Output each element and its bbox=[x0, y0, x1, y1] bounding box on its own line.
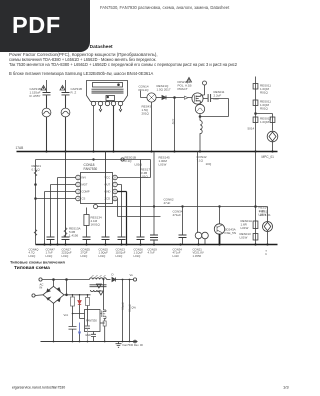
svg-text:COMP: COMP bbox=[82, 190, 90, 194]
warning triangle near C216 bbox=[41, 86, 46, 91]
svg-text:10Q: 10Q bbox=[206, 162, 212, 166]
svg-text:L01Q: L01Q bbox=[46, 254, 54, 258]
wire U1 pin3 bbox=[45, 192, 76, 245]
svg-text:PRACT: PRACT bbox=[178, 87, 188, 91]
svg-text:1.5Q 2017: 1.5Q 2017 bbox=[157, 88, 171, 92]
boost diode D3 bbox=[112, 278, 134, 282]
diode pair D5 bbox=[195, 152, 208, 245]
fuse F2 bbox=[61, 108, 70, 151]
label R17 bbox=[141, 168, 151, 179]
svg-text:1.4556: 1.4556 bbox=[193, 254, 202, 258]
label Q1 bbox=[178, 80, 192, 91]
winding sense arrow 2 bbox=[99, 291, 104, 295]
resistor R011a bbox=[253, 84, 258, 90]
stub arrow T1 pin5 bbox=[119, 106, 122, 112]
varistor RV1 bbox=[267, 131, 278, 151]
transformer T1 pin 4 bbox=[111, 101, 115, 105]
capacitor C316 bbox=[62, 80, 70, 108]
wire U2 out to gate bbox=[99, 313, 101, 315]
svg-text:Q%: Q% bbox=[132, 306, 137, 310]
output terminal Vo bbox=[133, 278, 136, 281]
wire bridge bottom to ground bbox=[53, 303, 55, 341]
svg-text:CS: CS bbox=[82, 197, 86, 201]
svg-text:7: 7 bbox=[114, 183, 116, 187]
svg-text:4.7uF: 4.7uF bbox=[148, 251, 155, 255]
svg-text:R. Z: R. Z bbox=[71, 91, 77, 95]
protection circle Q2 bbox=[195, 104, 204, 120]
label D3 bbox=[112, 273, 114, 277]
PDF logo bbox=[12, 12, 61, 39]
capacitor C13 bbox=[137, 160, 145, 245]
svg-text:L01Q: L01Q bbox=[62, 254, 70, 258]
svg-text:471uF: 471uF bbox=[173, 213, 182, 217]
wire U2 inv pin bbox=[80, 318, 85, 320]
wire zener to ground bbox=[79, 335, 81, 342]
wire bridge top to line bbox=[53, 279, 55, 287]
resistor R01A bbox=[253, 152, 258, 245]
terminal at ground end bbox=[134, 340, 137, 343]
vcc feed resistor R2 bbox=[71, 295, 75, 314]
paragraph line 4 bbox=[9, 71, 153, 76]
label R011a bbox=[260, 84, 271, 95]
label 17AB bbox=[16, 146, 24, 150]
caption: typical circuits bbox=[10, 260, 65, 265]
svg-text:5: 5 bbox=[114, 197, 116, 201]
label C11 bbox=[214, 90, 225, 101]
svg-text:1.4156: 1.4156 bbox=[69, 234, 79, 238]
mark on feed wire bbox=[34, 230, 37, 236]
label C216 bbox=[30, 87, 42, 98]
junction dots on bottom rail bbox=[43, 243, 268, 245]
svg-text:R.1Q: R.1Q bbox=[125, 159, 133, 163]
svg-text:R. A55Y: R. A55Y bbox=[30, 94, 41, 98]
svg-text:Vcc: Vcc bbox=[64, 313, 69, 317]
svg-text:L01W: L01W bbox=[240, 236, 248, 240]
transformer T2 core bbox=[90, 285, 107, 287]
bottom rail bbox=[36, 244, 278, 246]
capacitor C17 bbox=[83, 237, 91, 245]
svg-text:6: 6 bbox=[114, 190, 116, 194]
PDF badge bbox=[0, 0, 90, 52]
paragraph line 3 bbox=[9, 62, 237, 67]
warning triangle near C316 bbox=[60, 86, 65, 91]
divider wire R8 bbox=[121, 280, 125, 342]
label R01B bbox=[125, 156, 143, 167]
capacitor C11 bbox=[208, 94, 211, 102]
resistor R011c bbox=[253, 117, 258, 123]
wire lamp to diode bbox=[156, 97, 161, 99]
paragraph line 2 bbox=[9, 57, 156, 62]
svg-text:R01Q: R01Q bbox=[260, 107, 269, 111]
capacitor C216 bbox=[43, 80, 51, 108]
svg-text:R01Q: R01Q bbox=[260, 91, 269, 95]
svg-text:0.7LQ: 0.7LQ bbox=[32, 168, 41, 172]
wire U2 vcc pin bbox=[73, 314, 85, 327]
label MPC_01 bbox=[262, 155, 275, 159]
label R134 bbox=[91, 216, 103, 227]
inductor L2 bbox=[200, 120, 202, 151]
svg-text:KSE_5N: KSE_5N bbox=[225, 231, 237, 235]
U1 pin 8 bbox=[113, 175, 118, 180]
zener arrow (blue) bbox=[78, 323, 80, 335]
caption: typical circuit bold bbox=[14, 265, 50, 271]
transformer T1 pin 5 bbox=[118, 101, 122, 105]
label GND pin bbox=[85, 334, 91, 337]
svg-text:12Q: 12Q bbox=[172, 119, 176, 125]
wire U1 pin6 gate drive bbox=[117, 192, 126, 245]
svg-text:(R8Q): (R8Q) bbox=[121, 303, 125, 310]
wire U1 pin7 bbox=[117, 185, 121, 238]
wire from T1 pin1 to rail bbox=[93, 106, 95, 152]
svg-text:4: 4 bbox=[77, 197, 79, 201]
svg-text:L410: L410 bbox=[173, 254, 180, 258]
label RT1 bbox=[260, 210, 272, 218]
branch wire to varistor bbox=[255, 113, 275, 131]
wire U1 pin4 bbox=[36, 198, 76, 200]
svg-text:1.0QM: 1.0QM bbox=[260, 120, 270, 124]
sense resistor R7 bbox=[103, 321, 106, 342]
svg-text:L01Q: L01Q bbox=[135, 163, 143, 167]
label VR2 bbox=[69, 227, 81, 238]
svg-text:2: 2 bbox=[77, 183, 79, 187]
svg-text:L01Q: L01Q bbox=[134, 254, 142, 258]
svg-text:L6V: L6V bbox=[214, 97, 219, 101]
wire U2 cs pin bbox=[100, 322, 105, 324]
svg-text:INV: INV bbox=[82, 176, 87, 180]
U1 pin 1 bbox=[76, 175, 81, 180]
label R01A bbox=[240, 219, 253, 240]
label Q3 bbox=[225, 228, 237, 236]
svg-text:MOT: MOT bbox=[82, 183, 88, 187]
header title text bbox=[100, 5, 229, 10]
svg-text:L01W: L01W bbox=[159, 163, 167, 167]
svg-text:FAN7530: FAN7530 bbox=[84, 167, 98, 171]
svg-text:L01Q: L01Q bbox=[81, 254, 89, 258]
junction wire at node A bbox=[174, 97, 176, 152]
svg-text:47uF: 47uF bbox=[164, 201, 171, 205]
capacitor C25 bbox=[102, 152, 110, 245]
paragraph line 1 bbox=[9, 52, 158, 57]
svg-text:Fan7530 Rev. 00: Fan7530 Rev. 00 bbox=[123, 343, 144, 347]
op-amp IC U1 FAN7530 bbox=[81, 173, 113, 204]
wire line to diode bbox=[107, 279, 111, 281]
label U2 bbox=[86, 319, 97, 323]
svg-text:3: 3 bbox=[77, 190, 79, 194]
mot capacitor C7 bbox=[91, 332, 96, 342]
U1 pin 5 bbox=[113, 196, 118, 201]
label 12Q bbox=[172, 119, 176, 125]
node dot on feed line bbox=[93, 159, 95, 161]
wire Q1 to C11 bbox=[200, 99, 229, 117]
startup diode D1 (red) bbox=[78, 295, 81, 319]
label Vo bbox=[130, 273, 134, 277]
label RES145 bbox=[159, 156, 171, 167]
footer url bbox=[12, 385, 65, 390]
footer page number bbox=[283, 385, 289, 390]
thermistor RT1 bbox=[263, 222, 273, 245]
document heading tail bbox=[87, 44, 113, 50]
U1 pin 2 bbox=[76, 182, 81, 187]
svg-text:L01Q: L01Q bbox=[29, 254, 37, 258]
marker on feed line bbox=[121, 158, 124, 161]
wire U1 pin8 bbox=[117, 177, 150, 179]
svg-text:5014: 5014 bbox=[248, 127, 255, 131]
transistor Q3 bbox=[214, 207, 224, 245]
svg-text:L01Q: L01Q bbox=[116, 254, 124, 258]
transformer T2 hatch bbox=[92, 275, 106, 277]
svg-text:1W 1.01: 1W 1.01 bbox=[260, 213, 272, 217]
label C24 bbox=[32, 164, 42, 172]
svg-text:1: 1 bbox=[77, 176, 79, 180]
transformer T2 aux winding bbox=[91, 290, 101, 292]
capacitor C34 bbox=[179, 207, 187, 245]
transformer T1 pin 1 bbox=[91, 101, 95, 105]
label divider node bbox=[132, 306, 137, 310]
lamp L1 bbox=[141, 91, 157, 152]
mark on feed wire upper bbox=[34, 170, 37, 176]
label row below bottom rail bbox=[29, 248, 268, 258]
terminal above Q1 bbox=[201, 81, 207, 95]
sense line 2 bbox=[118, 216, 161, 218]
warning triangle above Q1 bbox=[187, 78, 192, 83]
svg-text:L01Q: L01Q bbox=[99, 254, 107, 258]
label C316 bbox=[71, 87, 83, 95]
main rail top bbox=[17, 151, 278, 153]
label R011c bbox=[248, 117, 272, 131]
U1 pin names bbox=[82, 176, 111, 201]
wire AC2 stub bbox=[35, 294, 43, 297]
label D2 bbox=[157, 84, 171, 92]
label R43 bbox=[142, 105, 152, 116]
diode D2 bbox=[162, 96, 192, 100]
transformer T2 primary winding bbox=[90, 278, 107, 280]
ground rail bottom schematic bbox=[41, 341, 138, 343]
capacitor C15 bbox=[118, 237, 126, 245]
U1 pin 7 bbox=[113, 182, 118, 187]
MOSFET Q5 bbox=[100, 280, 106, 322]
label U1 title bbox=[84, 163, 98, 171]
U1 pin numbers bbox=[77, 176, 116, 201]
wire U1 pin1 bbox=[58, 178, 76, 245]
svg-text:1K01Q: 1K01Q bbox=[91, 223, 101, 227]
aux resistor R3 bbox=[86, 295, 90, 310]
capacitor C16 bbox=[150, 235, 158, 245]
stub arrow T1 pin2 bbox=[99, 106, 102, 112]
label RES146 bbox=[259, 206, 269, 217]
AC terminal 2 bbox=[32, 294, 35, 297]
svg-text:17AB: 17AB bbox=[16, 146, 24, 150]
winding sense arrow 1 bbox=[97, 284, 102, 288]
label R011b bbox=[260, 100, 271, 111]
ground symbol bbox=[116, 342, 122, 348]
label Vcc bbox=[64, 313, 69, 317]
long sense line bbox=[94, 205, 268, 222]
U1 pin 6 bbox=[113, 189, 118, 194]
svg-text:b: b bbox=[266, 252, 268, 256]
node dot vcc line bbox=[72, 294, 89, 314]
svg-text:D: D bbox=[112, 273, 114, 277]
label AC IN bbox=[40, 283, 44, 290]
svg-text:201Q: 201Q bbox=[142, 112, 150, 116]
transformer T1 pin 2 bbox=[98, 101, 102, 105]
label L1 bbox=[139, 85, 150, 93]
junction dots on top rail bbox=[45, 150, 273, 152]
junction pin4 feed bbox=[35, 198, 37, 200]
svg-text:L01W: L01W bbox=[241, 226, 249, 230]
transformer T1 bbox=[87, 81, 128, 102]
svg-text:MPC_01: MPC_01 bbox=[262, 155, 275, 159]
wire U1 pin5 bbox=[116, 199, 118, 217]
wire AC1 to line bbox=[42, 279, 89, 281]
comp capacitor C6 bbox=[85, 310, 90, 342]
label CON42 bbox=[197, 155, 212, 166]
right resistor chain wire bbox=[255, 77, 257, 152]
ground rail node dots bbox=[53, 341, 131, 343]
svg-text:Vo: Vo bbox=[130, 273, 134, 277]
wire mid column bbox=[153, 152, 155, 236]
transformer T1 pin 3 bbox=[105, 101, 109, 105]
varistor VR2 bbox=[64, 228, 67, 238]
svg-text:POL1Q: POL1Q bbox=[139, 88, 150, 92]
svg-text:8: 8 bbox=[114, 176, 116, 180]
svg-text:GND: GND bbox=[85, 334, 91, 337]
capacitor C48 bbox=[47, 237, 55, 245]
AC terminal 1 bbox=[39, 278, 42, 281]
svg-text:IN: IN bbox=[40, 286, 43, 290]
resistor R011b bbox=[253, 100, 258, 106]
capacitor C47 bbox=[62, 152, 70, 245]
label revision bbox=[123, 343, 144, 347]
fuse F1 bbox=[42, 108, 51, 151]
U1 pin 3 bbox=[76, 189, 81, 194]
wire from T1 pin4 to rail bbox=[113, 106, 115, 152]
MOSFET Q1 bbox=[192, 93, 203, 104]
IC U2 FAN7530 bbox=[85, 310, 101, 332]
divider wire R9 bbox=[128, 280, 132, 342]
bridge rectifier BR1 bbox=[43, 286, 64, 303]
capacitor C vcc (blue plus) bbox=[69, 327, 77, 342]
label C34 bbox=[173, 210, 183, 218]
IC feed line bbox=[36, 160, 151, 245]
resistor R134 bbox=[84, 208, 89, 238]
node dots on output line bbox=[103, 279, 131, 281]
wire U1 pin2 bbox=[51, 185, 76, 238]
wire bridge right to vcc node bbox=[64, 279, 91, 296]
U1 pin 4 bbox=[76, 196, 81, 201]
